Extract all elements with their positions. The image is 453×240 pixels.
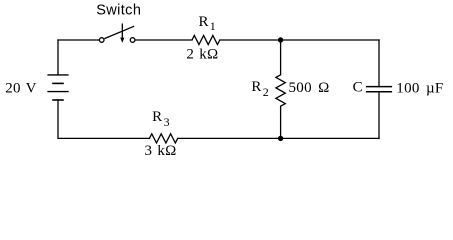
switch actuation arrowhead [120, 38, 124, 43]
wire R2 branch lower [280, 106, 282, 138]
wire R2 branch upper [280, 40, 282, 75]
svg-text:3: 3 [164, 115, 170, 129]
node junction top dot [278, 37, 283, 42]
svg-text:500 Ω: 500 Ω [289, 80, 330, 96]
svg-text:1: 1 [210, 19, 216, 33]
switch SW [99, 24, 135, 43]
wire right rail upper [378, 40, 380, 87]
resistor R3 [149, 134, 177, 143]
svg-text:2 kΩ: 2 kΩ [186, 47, 218, 63]
node junction bottom dot [278, 136, 283, 141]
svg-text:2: 2 [263, 85, 269, 99]
wire right rail lower [378, 92, 380, 139]
svg-text:100 µF: 100 µF [396, 81, 443, 97]
resistor R2 [276, 75, 285, 106]
svg-text:R: R [251, 79, 261, 95]
svg-text:R: R [152, 109, 162, 125]
wire bottom rail right [178, 137, 379, 139]
capacitor C [366, 87, 392, 92]
wire top-left rail [58, 39, 99, 41]
svg-text:R: R [199, 14, 209, 30]
wire top rail middle [135, 39, 192, 41]
svg-text:C: C [353, 80, 363, 96]
wire left rail upper [57, 40, 59, 75]
svg-text:3 kΩ: 3 kΩ [145, 143, 177, 159]
wire bottom rail left [58, 137, 149, 139]
wire left rail lower [57, 100, 59, 138]
svg-text:Switch: Switch [96, 3, 141, 19]
resistor R1 [192, 35, 220, 44]
wire top rail right [220, 39, 379, 41]
battery 20 V [47, 75, 68, 100]
svg-text:20 V: 20 V [5, 81, 37, 97]
